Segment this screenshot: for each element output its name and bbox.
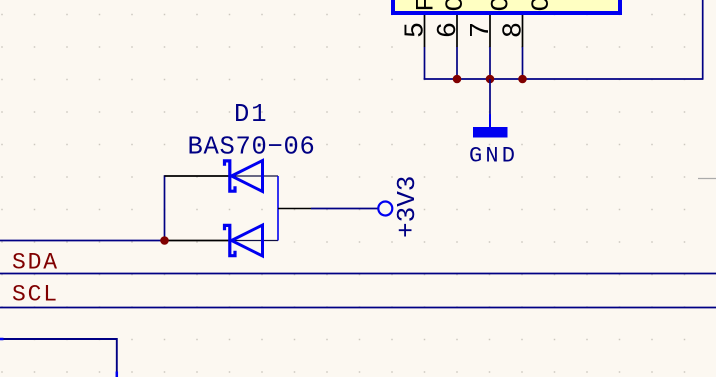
svg-text:SCL: SCL [12, 282, 59, 308]
svg-text:GND: GND [469, 144, 518, 169]
bottom diode cathode pin stub [165, 240, 230, 242]
pin name FSYNC (rotated, clipped) [412, 0, 441, 12]
pin 5 stub [424, 15, 426, 47]
svg-text:6: 6 [434, 22, 464, 38]
svg-text:+3V3: +3V3 [392, 176, 422, 238]
junction at pin6/bus [453, 75, 462, 84]
+3V3 power symbol circle [378, 202, 392, 216]
wire pin6 down [456, 47, 458, 79]
pin number 6 [434, 22, 464, 38]
top diode anode pin line [232, 175, 279, 177]
diode D1B triangle [232, 225, 263, 256]
wire pin5 down [424, 47, 426, 79]
D1 value BAS70-06 [188, 133, 316, 162]
GND symbol bar [473, 127, 508, 138]
top diode cathode pin stub [165, 175, 230, 177]
junction at riser/bottom wire [160, 236, 169, 245]
pin stub bottom box (blue) [116, 372, 119, 377]
wire bus to GND symbol [489, 79, 491, 114]
+3V3 label (rotated) [392, 176, 422, 238]
wire ground bus horizontal [424, 78, 703, 80]
svg-text:F: F [412, 0, 441, 12]
pin name GND (pin 8, rotated, clipped) [527, 0, 556, 12]
wire pin7 down [489, 47, 491, 79]
D1 pin 3 stub [278, 208, 311, 210]
GND net label [469, 144, 518, 169]
D1 internal anode join line [277, 176, 279, 241]
pin name GND (pin 7, rotated, clipped) [487, 0, 516, 12]
svg-text:5: 5 [402, 22, 432, 38]
pin 8 stub [522, 15, 524, 47]
pin name GND (pin 6, rotated, clipped) [441, 0, 470, 12]
IC U? body (yellow, cut off at top) [393, 0, 620, 13]
junction at pin8/bus [518, 75, 527, 84]
diode D1A cathode (schottky bar) [225, 161, 236, 191]
pin 6 stub [456, 15, 458, 47]
bottom diode anode pin line [232, 240, 279, 242]
D1 reference designator [234, 100, 269, 129]
diode D1B cathode (schottky bar) [225, 225, 236, 255]
pin number 7 [467, 22, 497, 38]
component box bottom-left top edge [0, 338, 117, 340]
wire left riser to top diode [164, 175, 166, 240]
svg-text:7: 7 [467, 22, 497, 38]
svg-text:SDA: SDA [12, 250, 59, 276]
SDA label [12, 250, 59, 276]
svg-text:C: C [487, 0, 516, 12]
SCL wire [0, 307, 716, 309]
diode D1A triangle [232, 161, 263, 192]
wire pin8 down [522, 47, 524, 79]
svg-text:8: 8 [500, 22, 530, 38]
GND symbol pin stub [489, 114, 491, 128]
pin nub top-left of bottom box [0, 338, 4, 341]
faint gray line right edge [698, 178, 716, 180]
svg-text:D1: D1 [234, 100, 269, 129]
pin number 5 [402, 22, 432, 38]
pin 7 stub [489, 15, 491, 47]
pin number 8 [500, 22, 530, 38]
svg-text:C: C [527, 0, 556, 12]
junction at pin7/bus [486, 75, 495, 84]
svg-text:C: C [441, 0, 470, 12]
bottom wire from left edge [0, 240, 165, 242]
SDA wire [0, 273, 716, 275]
SCL label [12, 282, 59, 308]
component box bottom-left right edge [116, 338, 118, 377]
wire right vertical from top [702, 0, 704, 80]
svg-text:BAS70−06: BAS70−06 [188, 133, 316, 162]
wire to +3V3 [311, 208, 378, 210]
